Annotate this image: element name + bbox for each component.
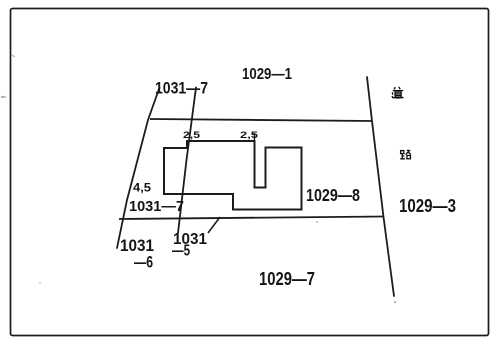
svg-text:—5: —5 — [172, 243, 190, 260]
svg-text:2,5: 2,5 — [240, 130, 259, 141]
svg-text:1029—3: 1029—3 — [399, 195, 456, 216]
svg-text:1029—8: 1029—8 — [306, 185, 360, 205]
leader line from label 1031-5 — [208, 217, 220, 233]
lower boundary line between 1031-7 and 1029-7 — [119, 217, 384, 220]
svg-text:1031—7: 1031—7 — [129, 198, 184, 215]
svg-text:1031: 1031 — [120, 237, 154, 255]
svg-text:4,5: 4,5 — [133, 183, 152, 195]
upper boundary line between 1029-1 and 1031-7 — [150, 119, 372, 121]
tick mark above notch for measurement 2,5 — [253, 133, 255, 141]
svg-text:1029—1: 1029—1 — [242, 66, 292, 83]
building footprint outline — [164, 141, 302, 210]
road kanji 道 — [392, 87, 404, 98]
speck below lower boundary — [316, 221, 318, 223]
smudge at left margin — [1, 96, 7, 98]
boundary line between 1031-6 and 1031-7 (left slanted) — [117, 88, 160, 249]
svg-text:1029—7: 1029—7 — [259, 269, 315, 289]
speck near road line end — [394, 301, 396, 303]
road edge line (right slanted) — [367, 77, 394, 296]
svg-text:2,5: 2,5 — [183, 130, 201, 141]
svg-text:—6: —6 — [134, 254, 153, 272]
speck top-left — [12, 55, 15, 57]
boundary line between 1031-7 and 1031-5 (middle near-vertical) — [178, 88, 196, 234]
road kanji 路 — [400, 150, 411, 158]
speck mid-left — [39, 282, 40, 283]
svg-text:1031—7: 1031—7 — [155, 80, 208, 98]
